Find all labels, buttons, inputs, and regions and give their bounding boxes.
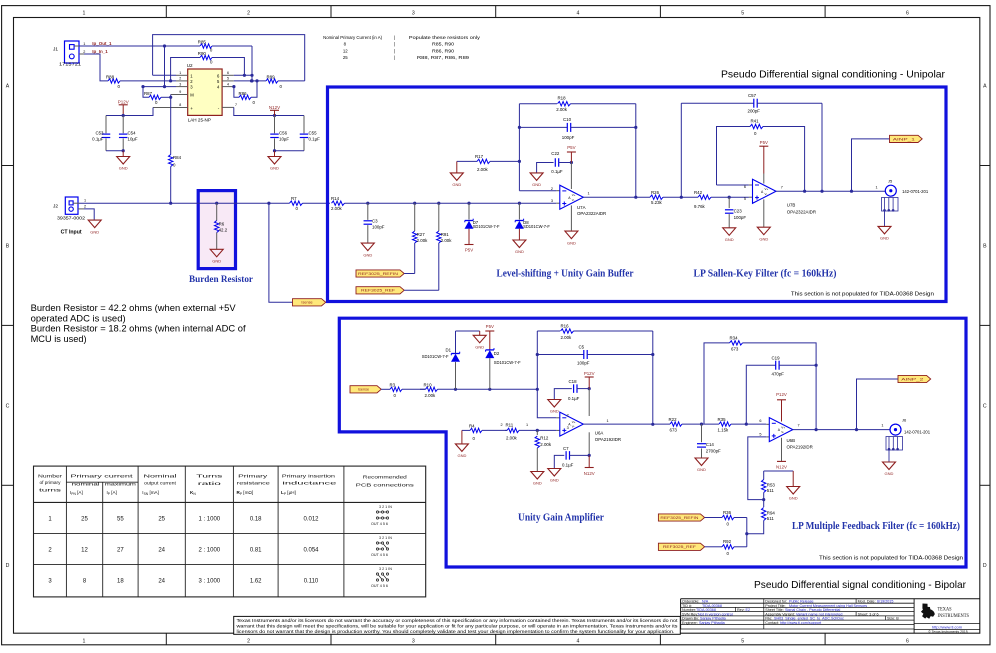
svg-text:2.00k: 2.00k	[441, 238, 453, 243]
wire U7A feedback left riser	[518, 104, 560, 191]
svg-text:B: B	[983, 243, 987, 249]
svg-text:5: 5	[741, 11, 744, 17]
svg-text:2.00k: 2.00k	[477, 167, 489, 172]
svg-text:5: 5	[741, 639, 744, 645]
svg-text:U6B: U6B	[787, 438, 796, 443]
svg-text:R42: R42	[694, 190, 703, 195]
svg-text:R94: R94	[767, 510, 776, 515]
op-amp U7B	[744, 179, 816, 214]
svg-text:warrant that this design will: warrant that this design will meet the s…	[237, 623, 678, 628]
svg-text:R86, R90: R86, R90	[432, 48, 455, 53]
title Pseudo Differential signal conditioning - Unipolar	[721, 69, 945, 81]
svg-text:R17: R17	[475, 154, 484, 159]
svg-text:C22: C22	[551, 151, 560, 156]
svg-text:470pF: 470pF	[772, 372, 785, 377]
svg-text:5: 5	[759, 432, 761, 436]
svg-text:C54: C54	[128, 131, 137, 136]
svg-text:R86: R86	[239, 91, 248, 96]
wire R34/C19 right riser to output	[815, 365, 818, 431]
svg-text:inductance: inductance	[282, 481, 337, 486]
svg-text:3 2 1 IN: 3 2 1 IN	[379, 567, 392, 571]
svg-text:1: 1	[83, 42, 85, 46]
label Unity Gain Amplifier	[518, 513, 605, 524]
svg-text:R88, R87, R86, R89: R88, R87, R86, R89	[417, 55, 470, 60]
svg-text:|: |	[394, 48, 395, 53]
svg-text:6: 6	[227, 71, 229, 75]
svg-text:D: D	[983, 563, 987, 569]
bipolar section box	[339, 318, 966, 567]
power N12V for U6B	[776, 438, 787, 470]
svg-text:12: 12	[343, 48, 348, 53]
wire into U7B pin6	[717, 184, 753, 186]
wire R85 right to U2 pin5 row	[250, 46, 253, 83]
svg-text:Nominal Primary Current (in A): Nominal Primary Current (in A)	[323, 35, 383, 40]
junction dot R11 node	[536, 429, 539, 432]
svg-text:Isense: Isense	[358, 388, 369, 392]
svg-text:R85: R85	[198, 40, 207, 45]
svg-text:R36: R36	[723, 510, 732, 515]
svg-text:GND: GND	[363, 252, 372, 257]
svg-text:R7: R7	[291, 196, 297, 201]
junction dots main row	[366, 202, 521, 205]
junction dot C14/R34 node	[700, 423, 703, 426]
svg-text:142-0701-201: 142-0701-201	[904, 429, 931, 434]
capacitor C54	[119, 116, 138, 151]
svg-text:V+: V+	[781, 425, 785, 429]
svg-text:R35: R35	[718, 417, 727, 422]
ground below U7B	[757, 199, 770, 241]
svg-text:2: 2	[501, 423, 503, 427]
svg-text:P12V: P12V	[118, 99, 129, 104]
diode D1	[422, 331, 460, 389]
svg-text:142-0701-201: 142-0701-201	[902, 189, 929, 194]
svg-text:GND: GND	[880, 236, 889, 241]
svg-text:resistance: resistance	[237, 481, 271, 486]
svg-text:of primary: of primary	[40, 480, 62, 485]
svg-text:R27: R27	[417, 232, 426, 237]
svg-text:R4: R4	[469, 424, 475, 429]
svg-text:REF3025_REFIN: REF3025_REFIN	[358, 272, 399, 276]
svg-text:U2: U2	[187, 63, 193, 68]
svg-text:6: 6	[759, 419, 761, 423]
svg-text:GND: GND	[550, 409, 559, 414]
svg-text:GND: GND	[457, 453, 466, 458]
wire U7B output row	[776, 186, 885, 193]
svg-text:511: 511	[767, 516, 775, 521]
svg-text:1.15k: 1.15k	[718, 427, 730, 432]
svg-text:0.81: 0.81	[250, 548, 262, 554]
ground below C14	[695, 458, 708, 472]
svg-text:V-: V-	[572, 425, 575, 429]
svg-text:C5: C5	[579, 344, 585, 349]
svg-text:1715721: 1715721	[59, 62, 82, 67]
svg-text:LP Sallen-Key Filter (fc = 160: LP Sallen-Key Filter (fc = 160kHz)	[694, 269, 837, 280]
svg-text:OUT 4 5 6: OUT 4 5 6	[371, 553, 388, 557]
wire U7A feedback right riser	[634, 104, 637, 199]
capacitor C53	[92, 116, 110, 151]
resistor R86 loop pin4 to pin5	[232, 81, 257, 105]
junction dots bipolar input row	[454, 388, 539, 391]
svg-text:2.00k: 2.00k	[556, 107, 568, 112]
ground below D8	[513, 240, 526, 254]
svg-text:1: 1	[179, 71, 181, 75]
resistor R41 feedback	[717, 118, 807, 192]
svg-text:1: 1	[881, 424, 883, 428]
resistor R85	[198, 40, 213, 53]
svg-text:2: 2	[247, 11, 250, 17]
connector J1	[53, 41, 85, 67]
wire AINP_1 riser	[852, 139, 890, 191]
svg-text:100pF: 100pF	[372, 225, 385, 230]
resistor R14	[331, 196, 556, 211]
ground below R12	[531, 472, 544, 486]
ground at J2 pin2	[84, 209, 101, 234]
svg-text:GND: GND	[697, 467, 706, 472]
svg-text:AINP_1: AINP_1	[893, 137, 915, 141]
resistor R7	[290, 196, 331, 211]
svg-text:Level-shifting + Unity Gain Bu: Level-shifting + Unity Gain Buffer	[497, 268, 635, 279]
svg-text:3: 3	[412, 639, 415, 645]
svg-text:R6: R6	[219, 221, 225, 226]
svg-text:39357-0002: 39357-0002	[57, 215, 86, 220]
svg-text:R92: R92	[723, 539, 732, 544]
resistor R84	[169, 95, 182, 205]
svg-text:R88: R88	[106, 74, 115, 79]
resistor R4	[462, 424, 507, 441]
note not populated (unipolar)	[791, 291, 934, 297]
svg-text:© Texas Instruments 2015: © Texas Instruments 2015	[928, 630, 967, 634]
svg-text:2: 2	[567, 413, 569, 417]
svg-text:3: 3	[551, 199, 553, 203]
svg-text:R41: R41	[751, 118, 760, 123]
diode D7	[465, 203, 500, 244]
IC U2 LAH 25-NP	[153, 63, 237, 122]
svg-text:Pseudo Differential signal con: Pseudo Differential signal conditioning …	[721, 69, 945, 81]
power N12V for U6A	[584, 455, 595, 475]
ground below R6	[210, 249, 223, 263]
svg-text:4: 4	[577, 11, 580, 17]
svg-text:GND: GND	[789, 496, 798, 501]
diode D8	[515, 203, 550, 240]
svg-text:J2: J2	[53, 203, 58, 209]
svg-text:2: 2	[83, 50, 85, 54]
svg-text:7: 7	[781, 185, 783, 189]
svg-text:24: 24	[158, 548, 165, 554]
svg-text:C3: C3	[372, 218, 378, 223]
svg-text:GND: GND	[550, 478, 559, 483]
svg-text:1: 1	[84, 199, 86, 203]
svg-text:ratio: ratio	[198, 481, 222, 487]
svg-text:Nominal: Nominal	[144, 473, 177, 479]
capacitor C19	[746, 355, 817, 424]
wire R36/R92 riser	[746, 518, 748, 547]
svg-text:TEXAS: TEXAS	[938, 607, 952, 613]
svg-text:R16: R16	[561, 324, 570, 329]
ground at R4 left	[455, 430, 468, 458]
svg-text:P12V: P12V	[584, 371, 595, 376]
svg-text:MCU is used): MCU is used)	[31, 334, 87, 344]
svg-text:R84: R84	[173, 155, 182, 160]
svg-text:Ip_In_1: Ip_In_1	[92, 49, 108, 54]
capacitor C14	[697, 424, 721, 458]
wire main CT row	[79, 202, 290, 205]
svg-text:25: 25	[158, 517, 165, 523]
svg-text:R10: R10	[424, 383, 433, 388]
svg-text:Contact:: Contact:	[765, 621, 779, 625]
svg-text:3 : 1000: 3 : 1000	[198, 579, 220, 585]
svg-text:2: 2	[179, 77, 181, 81]
svg-text:12: 12	[81, 548, 88, 554]
wire C56/C55 bottom	[273, 149, 304, 152]
svg-text:Pseudo Differential signal con: Pseudo Differential signal conditioning …	[754, 579, 966, 591]
svg-text:+: +	[190, 106, 193, 111]
svg-text:R12: R12	[540, 435, 549, 440]
svg-text:2: 2	[84, 205, 86, 209]
svg-text:100pF: 100pF	[562, 135, 575, 140]
svg-text:Sheet: 3 of 6: Sheet: 3 of 6	[858, 612, 879, 616]
resistor R89	[266, 75, 305, 89]
svg-text:V+: V+	[572, 420, 576, 424]
svg-text:8: 8	[179, 103, 181, 107]
wire U2 pin7 to N12V node	[234, 107, 304, 117]
wire U6B pin5 to R53/R94 node	[748, 437, 766, 501]
svg-text:Orderable:: Orderable:	[682, 599, 699, 603]
svg-text:V+: V+	[572, 193, 576, 197]
svg-text:6/19/2015: 6/19/2015	[877, 599, 893, 603]
power P5V below D7	[465, 245, 474, 253]
svg-text:V-: V-	[765, 192, 768, 196]
capacitor C55	[300, 116, 320, 151]
svg-text:0.1µF: 0.1µF	[92, 137, 104, 142]
svg-text:5.23k: 5.23k	[651, 200, 663, 205]
svg-text:GND: GND	[90, 229, 99, 234]
svg-text:2.00k: 2.00k	[561, 335, 573, 340]
net label Ip_In_1	[92, 49, 108, 54]
wire D1 to ground	[456, 331, 480, 335]
svg-text:GND: GND	[885, 471, 894, 476]
pin number 2 label	[501, 423, 503, 427]
svg-text:Primary insertion: Primary insertion	[282, 473, 336, 478]
svg-text:A: A	[983, 84, 987, 90]
svg-text:output current: output current	[144, 480, 177, 485]
svg-text:GND: GND	[452, 182, 461, 187]
ground below J5	[878, 226, 891, 240]
svg-text:Sanjay Pithadia: Sanjay Pithadia	[699, 621, 726, 625]
wire burden to Isense flag	[269, 203, 293, 302]
svg-text:This section is not populated: This section is not populated for TIDA-0…	[791, 291, 934, 297]
svg-text:Burden Resistor: Burden Resistor	[189, 275, 254, 285]
net flag AINP_2	[898, 375, 931, 382]
svg-text:R90: R90	[198, 51, 207, 56]
svg-text:C23: C23	[734, 208, 743, 213]
svg-text:1: 1	[82, 11, 85, 17]
disclaimer box	[234, 616, 681, 634]
svg-text:GND: GND	[725, 237, 734, 242]
op-amp U6B	[759, 418, 812, 450]
svg-text:2.00k: 2.00k	[331, 206, 343, 211]
wire U6A output row	[583, 423, 670, 425]
svg-text:C19: C19	[772, 355, 781, 360]
svg-text:This section is not populated: This section is not populated for TIDA-0…	[819, 556, 963, 562]
wire U2 pin5 row with R89	[234, 79, 266, 82]
svg-text:maximum: maximum	[105, 481, 137, 486]
svg-text:2: 2	[551, 187, 553, 191]
svg-text:10µF: 10µF	[279, 137, 289, 142]
svg-text:Burden Resistor = 42.2 ohms (w: Burden Resistor = 42.2 ohms (when extern…	[31, 303, 237, 313]
svg-text:REF3025_REFIN: REF3025_REFIN	[660, 516, 699, 520]
svg-text:2.00k: 2.00k	[540, 442, 552, 447]
connector J5	[882, 179, 929, 227]
svg-text:GND: GND	[532, 182, 541, 187]
power P5V bipolar	[485, 324, 494, 350]
svg-text:Primary current: Primary current	[71, 473, 134, 479]
svg-text:R89: R89	[267, 75, 276, 80]
svg-text:V+: V+	[765, 187, 769, 191]
resistor R17	[457, 154, 521, 172]
ground for D1	[473, 335, 486, 349]
svg-text:1: 1	[876, 186, 878, 190]
svg-text:P5V: P5V	[486, 324, 494, 329]
svg-text:R14: R14	[331, 196, 340, 201]
svg-text:9: 9	[179, 90, 181, 94]
wire C57 left riser	[680, 103, 682, 197]
svg-text:Unity Gain Amplifier: Unity Gain Amplifier	[518, 513, 605, 524]
label LP Multiple Feedback Filter	[792, 521, 960, 532]
svg-text:P12V: P12V	[776, 392, 787, 397]
resistor R91	[437, 203, 453, 290]
svg-text:Turns: Turns	[196, 473, 223, 479]
svg-text:N12V: N12V	[269, 105, 280, 110]
svg-text:B: B	[6, 243, 10, 249]
svg-text:E2: E2	[746, 608, 751, 612]
svg-text:Size: B: Size: B	[887, 617, 899, 621]
diode D2	[485, 348, 521, 389]
wire C53/C54 bottom	[106, 149, 125, 152]
svg-text:1: 1	[607, 419, 609, 423]
svg-text:D1: D1	[446, 347, 452, 352]
svg-text:0.054: 0.054	[303, 548, 319, 554]
svg-text:0.1µF: 0.1µF	[551, 169, 563, 174]
svg-text:R53: R53	[767, 482, 776, 487]
svg-text:C10: C10	[563, 117, 572, 122]
svg-text:C: C	[6, 403, 10, 409]
svg-text:SD101CW-7-F: SD101CW-7-F	[473, 224, 500, 229]
svg-text:Ip_Out_1: Ip_Out_1	[92, 41, 112, 46]
wire top rail	[153, 35, 305, 81]
svg-text:Mod. Date:: Mod. Date:	[858, 599, 876, 603]
svg-text:Burden Resistor = 18.2 ohms (w: Burden Resistor = 18.2 ohms (when intern…	[31, 324, 246, 334]
svg-text:200pF: 200pF	[748, 109, 761, 114]
svg-text:GND: GND	[270, 166, 279, 171]
power P12V	[118, 99, 129, 115]
ground below C23	[723, 228, 736, 242]
ground below C54	[117, 151, 130, 171]
resistor R18	[519, 96, 635, 112]
svg-text:3 2 1 IN: 3 2 1 IN	[379, 536, 392, 540]
resistor R53	[762, 471, 776, 500]
op-amp U6A	[556, 412, 621, 442]
title Pseudo Differential signal conditioning - Bipolar	[754, 579, 966, 591]
svg-text:|: |	[394, 55, 395, 60]
svg-text:Populate these resistors only: Populate these resistors only	[409, 35, 481, 40]
svg-text:C56: C56	[279, 131, 288, 136]
svg-text:C7: C7	[563, 446, 569, 451]
svg-text:9.76k: 9.76k	[694, 204, 706, 209]
svg-text:1 : 1000: 1 : 1000	[198, 517, 220, 523]
svg-text:licensors do not warrant that: licensors do not warrant that the design…	[237, 629, 675, 634]
title block	[681, 599, 980, 633]
svg-text:OUT 4 5 6: OUT 4 5 6	[371, 522, 388, 526]
svg-text:4: 4	[227, 82, 229, 86]
svg-text:R85, R90: R85, R90	[432, 42, 455, 47]
svg-text:3: 3	[412, 11, 415, 17]
svg-text:D: D	[6, 563, 10, 569]
svg-text:C14: C14	[706, 442, 715, 447]
resistor R10	[420, 383, 537, 399]
resistor R6	[215, 203, 228, 249]
svg-text:SD101CW-7-F: SD101CW-7-F	[494, 360, 521, 365]
svg-text:R11: R11	[506, 422, 514, 427]
svg-text:100pF: 100pF	[577, 360, 590, 365]
svg-text:GND: GND	[567, 240, 576, 245]
label CT Input	[61, 230, 82, 236]
resistor R26	[650, 190, 683, 205]
svg-text:CT Input: CT Input	[61, 230, 82, 236]
svg-text:Rev:: Rev:	[737, 608, 745, 612]
power N12V	[269, 105, 280, 116]
resistor R87	[141, 85, 172, 105]
wire J1.1 to R85 row / U2 pin3 riser	[79, 44, 252, 88]
label LP Sallen-Key Filter	[694, 269, 837, 280]
svg-text:R22: R22	[669, 417, 678, 422]
svg-text:SD101CW-7-F: SD101CW-7-F	[523, 224, 550, 229]
connector J2	[53, 197, 86, 220]
transducer selection table	[34, 466, 426, 597]
capacitor C57	[681, 93, 822, 114]
capacitor C10	[519, 117, 637, 140]
ground below U7A	[565, 205, 578, 245]
svg-text:100pF: 100pF	[734, 215, 747, 220]
svg-text:5: 5	[227, 77, 229, 81]
svg-text:OPA2192IDR: OPA2192IDR	[595, 437, 621, 442]
svg-text:673: 673	[731, 346, 739, 351]
svg-text:55: 55	[117, 517, 124, 523]
svg-text:18: 18	[117, 579, 124, 585]
svg-text:4: 4	[577, 639, 580, 645]
svg-text:LAH 25-NP: LAH 25-NP	[188, 118, 211, 123]
svg-text:GND: GND	[515, 249, 524, 254]
resistor R22	[669, 417, 720, 433]
capacitor C3	[364, 203, 385, 243]
svg-text:C18: C18	[569, 379, 578, 384]
svg-text:http://www.ti.com: http://www.ti.com	[932, 624, 963, 629]
connector J6	[886, 418, 931, 462]
net flag REF3025_REFIN (bipolar)	[658, 514, 719, 521]
svg-text:LP Multiple Feedback Filter (f: LP Multiple Feedback Filter (fc = 160kHz…	[792, 521, 960, 532]
capacitor C23	[725, 197, 746, 228]
svg-text:OPA2192IDR: OPA2192IDR	[787, 445, 813, 450]
wire U6A feedback left riser	[536, 331, 539, 389]
svg-text:http://www.ti.com/support: http://www.ti.com/support	[780, 621, 821, 625]
wire AINP_2 riser	[857, 379, 899, 430]
svg-text:0.1µF: 0.1µF	[562, 463, 574, 468]
svg-text:N/A: N/A	[702, 599, 709, 603]
ground below C3	[361, 243, 374, 257]
svg-text:REF3025_REF: REF3025_REF	[663, 545, 696, 549]
svg-text:2.00k: 2.00k	[417, 238, 429, 243]
svg-text:turns: turns	[39, 487, 63, 492]
resistor R3	[390, 383, 426, 399]
